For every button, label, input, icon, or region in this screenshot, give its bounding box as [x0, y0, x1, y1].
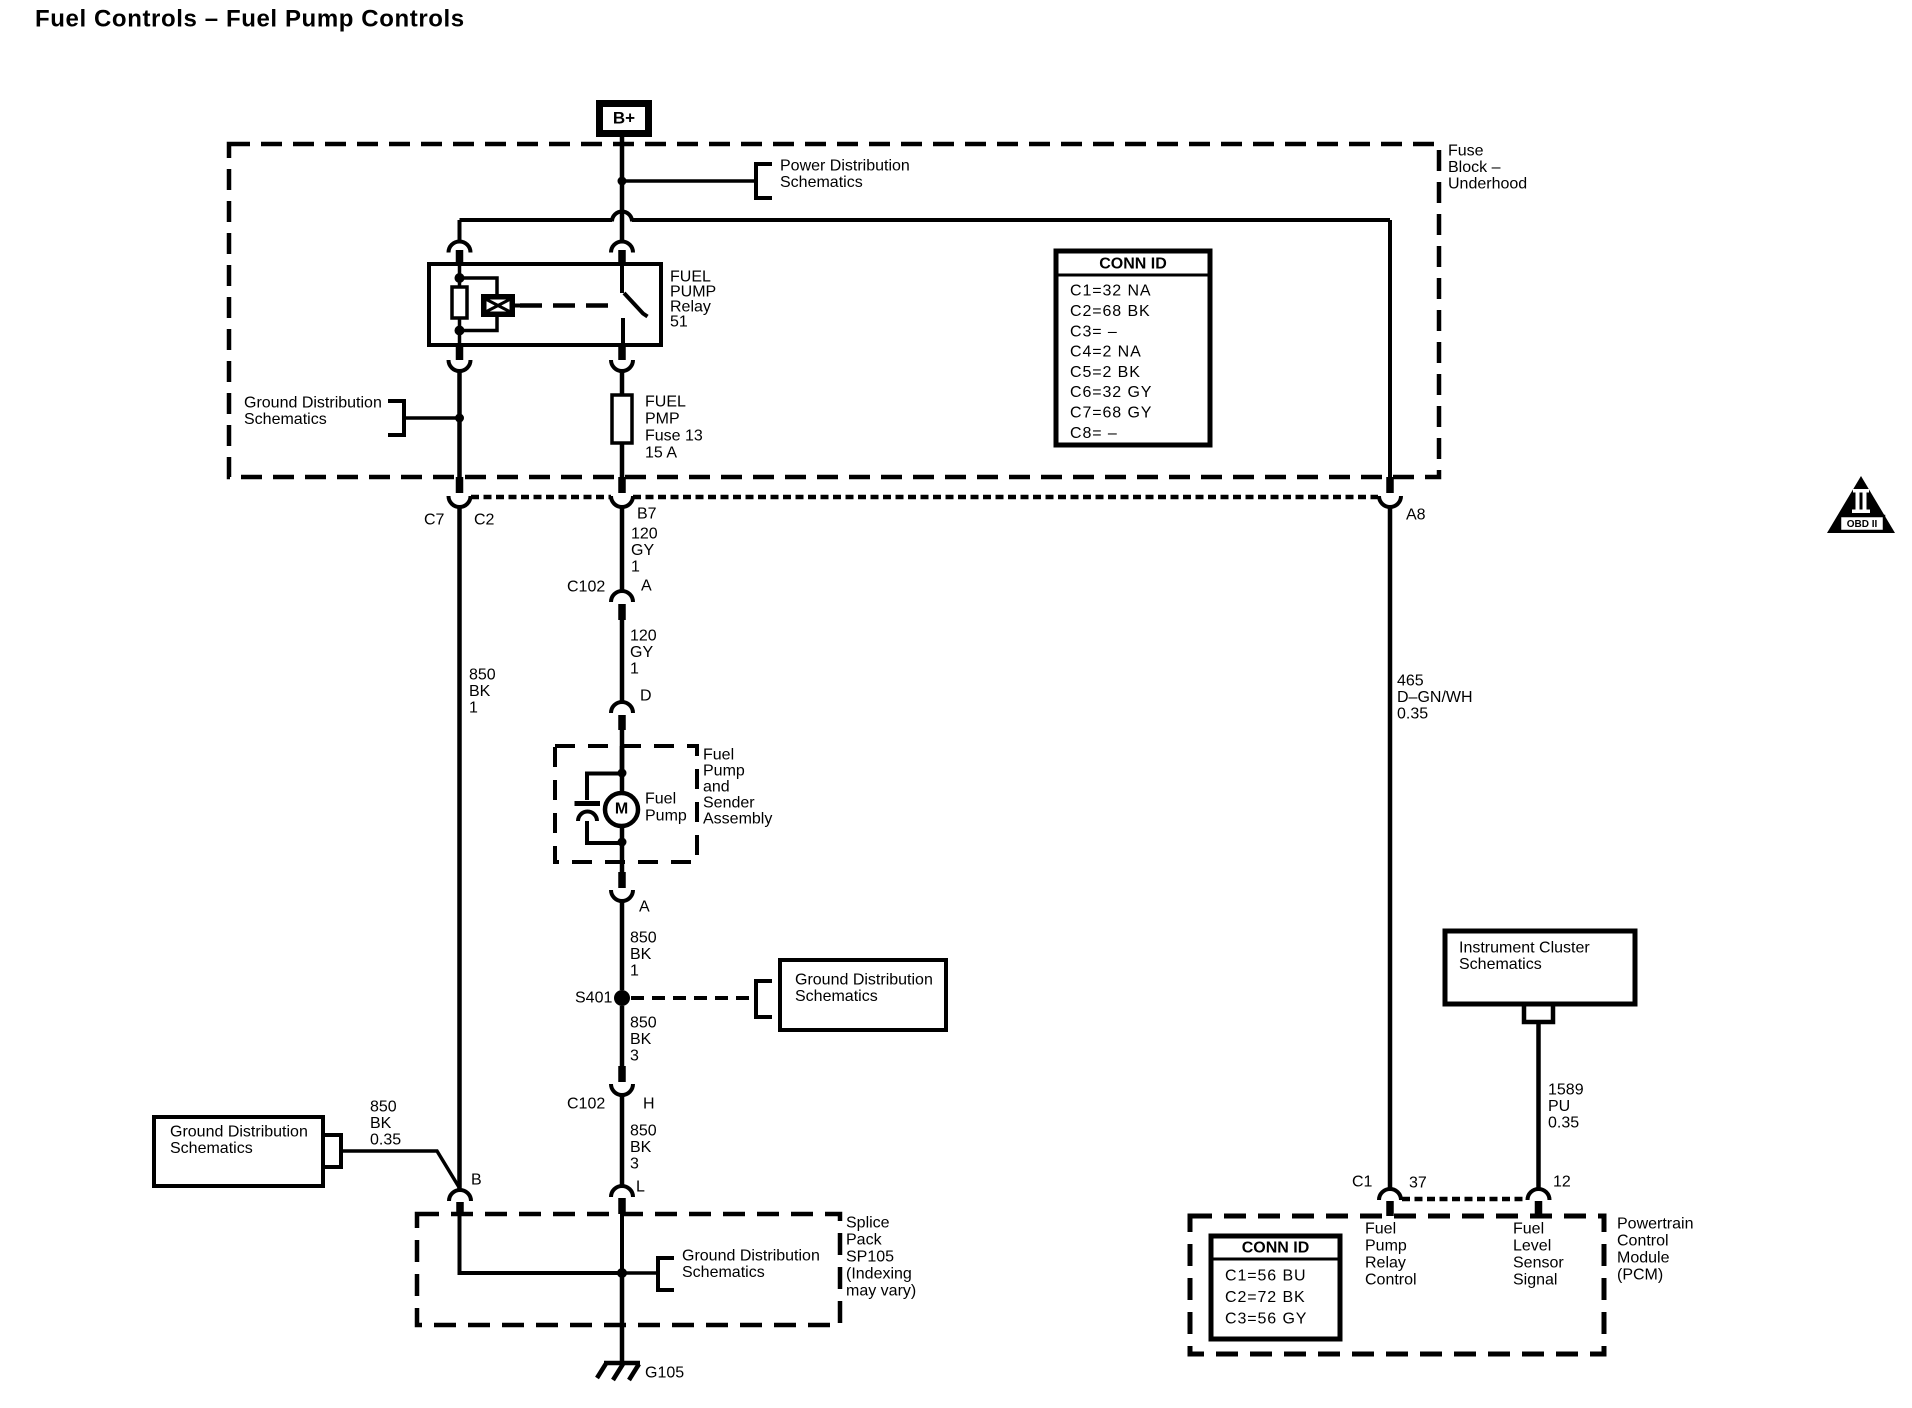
relay coil (box with X)	[481, 294, 515, 317]
node: splice pack junction	[617, 1268, 627, 1278]
svg-text:C7=68 GY: C7=68 GY	[1070, 405, 1152, 422]
connector arc: fuel pump pin D	[611, 702, 633, 713]
svg-text:CONN ID: CONN ID	[1099, 256, 1167, 273]
svg-text:S401: S401	[575, 990, 612, 1007]
relay coil resistor	[452, 287, 467, 318]
connector arc: relay coil bottom	[449, 360, 471, 371]
wire: 850 BK 1 (pump to S401)	[620, 899, 625, 990]
svg-text:37: 37	[1409, 1175, 1427, 1192]
connector: relay pin (switch) arc	[611, 242, 633, 253]
svg-text:Fuse 13: Fuse 13	[645, 428, 703, 445]
svg-text:may vary): may vary)	[846, 1283, 916, 1300]
connector C102 pin A arc	[611, 591, 633, 602]
relay internal wire: coil parallel branch	[460, 278, 498, 295]
node: power distribution tap	[618, 177, 627, 186]
connector arc: splice pack pin B	[449, 1190, 471, 1201]
wire: 120 GY 1 (C102 A to pump D)	[620, 620, 625, 704]
OBD II marker	[1827, 476, 1895, 533]
terminal pin: C102 H	[618, 1066, 626, 1082]
svg-text:Instrument Cluster: Instrument Cluster	[1459, 940, 1590, 957]
bracket: ground distribution (left)	[325, 1135, 341, 1167]
wire: A8 drop inside fuse block	[1388, 220, 1392, 479]
node: coil top	[455, 273, 465, 283]
svg-text:Fuse: Fuse	[1448, 143, 1484, 160]
dotted connector row: PCM C1	[1402, 1197, 1527, 1202]
splice S401	[614, 990, 630, 1006]
svg-text:Block –: Block –	[1448, 159, 1501, 176]
svg-text:C2: C2	[474, 512, 495, 529]
svg-text:CONN ID: CONN ID	[1242, 1240, 1310, 1257]
terminal pin: C7/C2	[456, 477, 464, 493]
svg-text:C102: C102	[567, 1096, 605, 1113]
check valve arc	[578, 812, 597, 822]
svg-text:Schematics: Schematics	[682, 1264, 765, 1281]
svg-text:A: A	[641, 578, 652, 595]
svg-text:BK: BK	[370, 1115, 392, 1132]
svg-text:A8: A8	[1406, 507, 1426, 524]
terminal pin: relay coil bottom	[456, 345, 464, 360]
wire: pump motor leads	[620, 746, 625, 793]
wire: fuse 13 to B7	[620, 443, 625, 479]
svg-text:BK: BK	[469, 683, 491, 700]
svg-text:SP105: SP105	[846, 1249, 894, 1266]
wire: 850 BK 1 (left, C2 to splice pack B)	[457, 505, 462, 1192]
terminal pin: fuel pump A	[618, 872, 626, 888]
dashed tap: S401 to ground distribution	[631, 996, 754, 1000]
check valve branch wire (bottom)	[587, 821, 622, 843]
svg-text:BK: BK	[630, 1139, 652, 1156]
check valve plate	[575, 801, 601, 806]
in-line harness connector row (dotted)	[471, 495, 611, 500]
svg-text:C3= –: C3= –	[1070, 323, 1118, 340]
svg-text:15 A: 15 A	[645, 445, 677, 462]
node: coil bottom	[455, 326, 465, 336]
node: pump top junction	[618, 769, 627, 778]
svg-text:850: 850	[469, 667, 496, 684]
wire: relay coil control line (A8 to relay), hops over B+ wire	[458, 220, 462, 241]
bracket: ground distribution (S401)	[756, 981, 772, 1017]
bracket: ground distribution schematics (fuse block)	[388, 401, 404, 435]
wire hop over B+ feed	[612, 212, 632, 222]
svg-text:D–GN/WH: D–GN/WH	[1397, 689, 1473, 706]
wire: pump to pin A	[620, 843, 625, 872]
wire: C102 H to splice pack L	[620, 1093, 625, 1188]
svg-text:BK: BK	[630, 1031, 652, 1048]
wire: B+ feed down to relay switch	[620, 137, 625, 242]
wire: splice pack to G105	[620, 1273, 625, 1363]
svg-text:C1: C1	[1352, 1174, 1373, 1191]
svg-text:GY: GY	[630, 644, 653, 661]
wire: junction to ground bracket	[622, 1271, 658, 1275]
svg-text:C1=56 BU: C1=56 BU	[1225, 1268, 1306, 1285]
wire: relay switch to fuse 13	[620, 370, 625, 395]
connector arc: splice pack pin L	[611, 1186, 633, 1197]
relay switch contact from B+	[620, 264, 624, 293]
splice pack internal wire from L	[620, 1214, 624, 1273]
svg-text:C7: C7	[424, 512, 445, 529]
svg-text:Schematics: Schematics	[780, 174, 863, 191]
svg-text:1: 1	[630, 661, 639, 678]
svg-text:0.35: 0.35	[1397, 706, 1428, 723]
svg-text:PMP: PMP	[645, 411, 680, 428]
svg-text:Sender: Sender	[703, 795, 755, 812]
wire: S401 to C102 H	[620, 1006, 625, 1066]
svg-text:D: D	[640, 688, 652, 705]
svg-text:Fuel: Fuel	[1513, 1221, 1544, 1238]
svg-text:Relay: Relay	[1365, 1255, 1406, 1272]
svg-text:C1=32 NA: C1=32 NA	[1070, 283, 1151, 300]
wire: 465 D-GN/WH 0.35 (A8 to PCM C1-37)	[1388, 505, 1393, 1191]
svg-text:Control: Control	[1617, 1233, 1669, 1250]
wire: relay coil to ground distribution / C2	[457, 369, 462, 479]
svg-text:C2=72 BK: C2=72 BK	[1225, 1289, 1306, 1306]
connector arc: PCM pin 12	[1528, 1189, 1550, 1200]
svg-text:Power Distribution: Power Distribution	[780, 158, 910, 175]
fuel pump and sender assembly (dashed outline)	[555, 746, 697, 862]
svg-text:Schematics: Schematics	[244, 411, 327, 428]
svg-text:Fuel Controls – Fuel Pump Cont: Fuel Controls – Fuel Pump Controls	[35, 6, 465, 33]
splice pack internal wire from B	[460, 1216, 623, 1273]
terminal pin: B7	[618, 477, 626, 493]
wire: 1589 PU 0.35 (cluster to PCM 12)	[1536, 1022, 1541, 1191]
relay switch output contact	[621, 318, 625, 345]
relay internal wire: coil left leg	[458, 264, 462, 288]
svg-text:C6=32 GY: C6=32 GY	[1070, 384, 1152, 401]
svg-text:3: 3	[630, 1048, 639, 1065]
svg-text:(PCM): (PCM)	[1617, 1267, 1663, 1284]
wire: tap to power distribution bracket	[622, 179, 756, 183]
svg-text:Powertrain: Powertrain	[1617, 1216, 1693, 1233]
svg-text:Underhood: Underhood	[1448, 176, 1527, 193]
svg-text:L: L	[636, 1179, 645, 1196]
svg-text:120: 120	[631, 526, 658, 543]
svg-text:Pack: Pack	[846, 1232, 883, 1249]
terminal pin: A8	[1386, 477, 1394, 493]
check valve branch wire (top)	[587, 774, 622, 801]
svg-text:G105: G105	[645, 1365, 684, 1382]
svg-text:C8= –: C8= –	[1070, 425, 1118, 442]
svg-text:B7: B7	[637, 506, 657, 523]
svg-text:Pump: Pump	[645, 808, 687, 825]
motor: fuel pump	[605, 793, 638, 826]
svg-text:Pump: Pump	[1365, 1238, 1407, 1255]
svg-text:465: 465	[1397, 673, 1424, 690]
svg-text:B: B	[471, 1172, 482, 1189]
connector arc: relay switch bottom	[611, 360, 633, 371]
node: pump bottom junction	[618, 838, 627, 847]
svg-text:A: A	[639, 899, 650, 916]
svg-text:Sensor: Sensor	[1513, 1255, 1564, 1272]
svg-text:C102: C102	[567, 579, 605, 596]
svg-text:and: and	[703, 779, 730, 796]
svg-text:PU: PU	[1548, 1098, 1570, 1115]
svg-text:Fuel: Fuel	[645, 791, 676, 808]
svg-text:FUEL: FUEL	[645, 394, 686, 411]
terminal pin: PCM 12	[1535, 1201, 1543, 1216]
svg-text:Ground Distribution: Ground Distribution	[170, 1124, 308, 1141]
terminal pin: B	[456, 1202, 464, 1216]
svg-text:Module: Module	[1617, 1250, 1670, 1267]
instrument cluster schematics box	[1445, 931, 1635, 1004]
svg-text:Ground Distribution: Ground Distribution	[795, 972, 933, 989]
svg-text:GY: GY	[631, 542, 654, 559]
bracket: ground distribution (splice pack)	[658, 1258, 674, 1290]
connector: relay pin 1 (coil) arc	[449, 242, 471, 253]
svg-text:C4=2 NA: C4=2 NA	[1070, 344, 1142, 361]
svg-text:M: M	[615, 801, 628, 818]
ground distribution schematics box (S401)	[780, 960, 946, 1030]
svg-text:51: 51	[670, 314, 688, 331]
svg-text:C2=68 BK: C2=68 BK	[1070, 303, 1151, 320]
connector arc: fuel pump pin A	[611, 890, 633, 901]
terminal pin: C102 A	[618, 604, 626, 620]
svg-text:BK: BK	[630, 946, 652, 963]
ground distribution schematics box (left)	[154, 1117, 323, 1186]
svg-text:3: 3	[630, 1156, 639, 1173]
svg-text:120: 120	[630, 628, 657, 645]
splice pack SP105 (dashed outline)	[417, 1214, 840, 1325]
ground G105 symbol	[604, 1361, 640, 1366]
svg-text:0.35: 0.35	[1548, 1115, 1579, 1132]
connector arc: PCM C1 pin 37	[1379, 1189, 1401, 1200]
wire: tap to ground distribution bracket	[406, 416, 460, 420]
dashed link: coil actuates switch	[515, 304, 520, 308]
svg-text:Control: Control	[1365, 1272, 1417, 1289]
svg-text:Fuel: Fuel	[1365, 1221, 1396, 1238]
wire: pin D into fuel pump assembly	[620, 730, 625, 773]
svg-text:12: 12	[1553, 1174, 1571, 1191]
svg-text:850: 850	[630, 1123, 657, 1140]
wire: 850 BK 0.35 to splice pack B	[341, 1151, 460, 1188]
connector arc: C7/C2	[449, 496, 471, 507]
svg-text:Schematics: Schematics	[1459, 956, 1542, 973]
svg-text:Ground Distribution: Ground Distribution	[682, 1248, 820, 1265]
terminal pin: relay coil	[456, 250, 464, 266]
svg-text:0.35: 0.35	[370, 1132, 401, 1149]
connector arc: C102 H	[611, 1084, 633, 1095]
conn id table (PCM)	[1211, 1236, 1340, 1339]
svg-text:850: 850	[630, 1015, 657, 1032]
terminal pin: PCM 37	[1386, 1201, 1394, 1216]
svg-text:C5=2 BK: C5=2 BK	[1070, 364, 1141, 381]
terminal pin: D	[618, 715, 626, 730]
wire: 120 GY 1 (B7 to C102 A)	[620, 505, 625, 593]
B+ terminal	[600, 104, 649, 134]
svg-text:B+: B+	[613, 108, 635, 127]
svg-text:(Indexing: (Indexing	[846, 1266, 912, 1283]
relay switch blade	[624, 293, 648, 317]
svg-text:Assembly: Assembly	[703, 811, 772, 828]
connector arc: B7	[611, 496, 633, 507]
svg-text:Schematics: Schematics	[170, 1140, 253, 1157]
fuse: FUEL PMP Fuse 13 15A	[612, 395, 632, 443]
svg-text:H: H	[643, 1096, 655, 1113]
svg-text:C3=56 GY: C3=56 GY	[1225, 1311, 1307, 1328]
fuse block - underhood (dashed outline)	[229, 144, 1439, 477]
bracket: instrument cluster output	[1524, 1006, 1553, 1022]
relay: FUEL PUMP Relay 51 outline	[429, 264, 661, 345]
svg-text:Ground Distribution: Ground Distribution	[244, 395, 382, 412]
connector arc: A8	[1379, 496, 1401, 507]
svg-text:Level: Level	[1513, 1238, 1551, 1255]
svg-text:1: 1	[630, 963, 639, 980]
terminal pin: relay switch	[618, 250, 626, 266]
powertrain control module PCM (dashed outline)	[1190, 1216, 1604, 1354]
svg-text:1: 1	[469, 700, 478, 717]
svg-text:Schematics: Schematics	[795, 988, 878, 1005]
node: ground distribution tap	[455, 414, 464, 423]
svg-text:1589: 1589	[1548, 1082, 1584, 1099]
terminal pin: relay switch bottom	[618, 345, 626, 360]
svg-text:Splice: Splice	[846, 1215, 890, 1232]
terminal pin: L	[618, 1198, 626, 1214]
svg-text:850: 850	[630, 930, 657, 947]
svg-text:1: 1	[631, 559, 640, 576]
bracket: power distribution schematics	[756, 164, 772, 198]
conn id table (fuse block)	[1056, 251, 1210, 445]
svg-text:Fuel: Fuel	[703, 747, 734, 764]
svg-text:Signal: Signal	[1513, 1272, 1557, 1289]
svg-text:OBD II: OBD II	[1847, 519, 1878, 530]
svg-text:850: 850	[370, 1099, 397, 1116]
svg-text:Pump: Pump	[703, 763, 745, 780]
